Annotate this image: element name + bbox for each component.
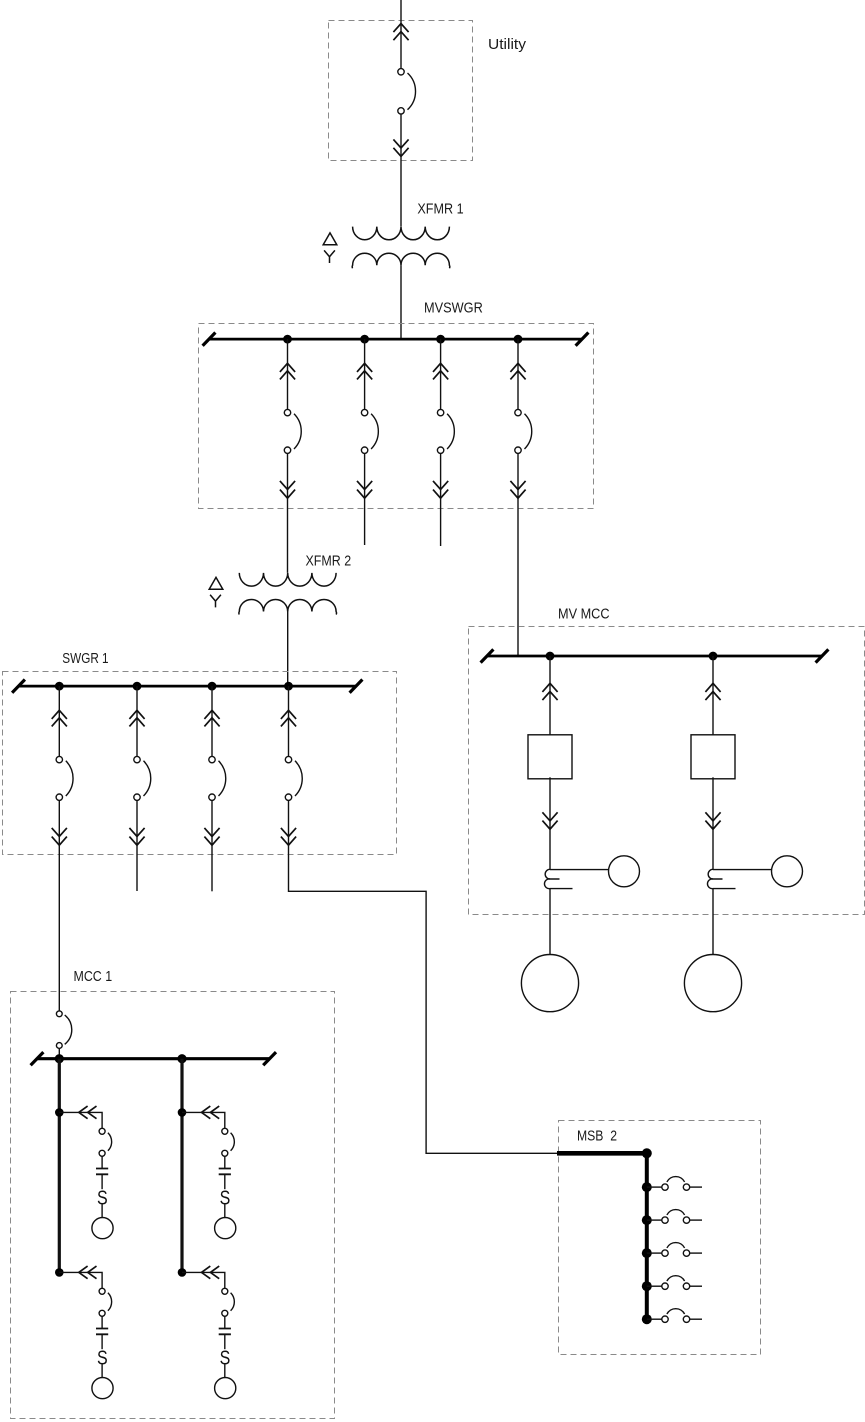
label Utility [488, 36, 527, 53]
wire MCC 1 col1 branch2 to motor [101, 1364, 103, 1377]
contact MCC 1 col2 branch2 [219, 1329, 231, 1335]
junction node MV MCC feeder 2 [709, 652, 718, 661]
XFMR 2 delta symbol [209, 577, 223, 589]
switch MSB 2 branch 2 left terminal [662, 1217, 668, 1223]
breaker SWGR 1 feeder 2 bottom terminal [134, 794, 140, 800]
wire MV MCC feeder 2 middle [712, 777, 714, 869]
breaker MVSWGR feeder 2 bottom terminal [361, 447, 367, 453]
flow arrow left MCC 1 col1 branch2 [79, 1266, 97, 1279]
breaker MCC 1 col2 branch2 top terminal [222, 1288, 228, 1294]
flow arrow down (utility out) [393, 139, 408, 156]
breaker SWGR 1 feeder 2 top terminal [134, 756, 140, 762]
junction node MCC 1 col1 branch1 [55, 1108, 64, 1117]
XFMR 2 wye symbol [210, 595, 221, 608]
wire MCC 1 col1 branch2 to overload [101, 1334, 103, 1349]
flow arrow down MVSWGR feeder 4 [510, 481, 525, 498]
wire MSB 2 branch 3 lead [647, 1252, 662, 1254]
flow arrow up MVSWGR feeder 1 [280, 363, 295, 379]
wire SWGR 1 feeder 4 to MSB 2 [289, 800, 559, 1153]
switch MSB 2 branch 4 left terminal [662, 1283, 668, 1289]
breaker SWGR 1 feeder 3 bottom terminal [209, 794, 215, 800]
MSB 2 enclosure (dashed) [559, 1121, 761, 1355]
wire MSB 2 branch 4 tail [690, 1285, 702, 1287]
wire XFMR 2 to SWGR 1 bus [287, 612, 289, 687]
breaker SWGR 1 feeder 1 top terminal [56, 756, 62, 762]
wire MV MCC feeder 1 middle [549, 777, 551, 869]
switch MSB 2 branch 3 right terminal [683, 1250, 689, 1256]
switch MSB 2 branch 1 left terminal [662, 1184, 668, 1190]
utility breaker arc [408, 73, 416, 110]
breaker MVSWGR feeder 4 arc [525, 414, 532, 449]
junction node MVSWGR feeder 3 [436, 335, 445, 344]
breaker MVSWGR feeder 3 top terminal [437, 409, 443, 415]
label XFMR 2 [306, 553, 352, 570]
busbar MVSWGR [203, 333, 589, 346]
breaker MVSWGR feeder 2 top terminal [361, 409, 367, 415]
XFMR 1 delta symbol [323, 233, 337, 245]
wire MCC 1 col2 branch1 horizontal [182, 1112, 225, 1128]
riser MCC 1 column 2 [180, 1059, 183, 1273]
XFMR 1 wye symbol [324, 250, 335, 263]
wire MSB 2 branch 2 lead [647, 1219, 662, 1221]
wire MCC 1 col2 branch1 to contact [224, 1156, 226, 1168]
breaker MCC 1 col2 branch1 top terminal [222, 1128, 228, 1134]
junction node MCC 1 col2 branch2 [178, 1268, 187, 1277]
MV MCC enclosure (dashed) [469, 627, 865, 915]
svg-text:MV MCC: MV MCC [558, 606, 610, 623]
wire SWGR 1 feeder 1 upper [58, 686, 60, 756]
breaker MCC 1 col1 branch2 bottom terminal [99, 1310, 105, 1316]
contact MCC 1 col1 branch1 [96, 1169, 108, 1175]
wire MVSWGR feeder 3 stub [440, 453, 442, 546]
breaker SWGR 1 feeder 3 arc [219, 761, 226, 796]
junction node MV MCC feeder 1 [546, 652, 555, 661]
utility breaker bottom terminal [398, 108, 404, 114]
switch MSB 2 branch 1 right terminal [683, 1184, 689, 1190]
wire MSB 2 branch 3 tail [690, 1252, 702, 1254]
breaker MVSWGR feeder 4 top terminal [515, 409, 521, 415]
wire MCC 1 col1 branch2 horizontal [59, 1272, 102, 1288]
wire SWGR 1 feeder 1 to MCC 1 [58, 800, 60, 1011]
flow arrow left MCC 1 col1 branch1 [79, 1106, 97, 1119]
motor M MV MCC feeder 1 [521, 955, 578, 1012]
wire utility breaker to XFMR 1 [400, 114, 402, 226]
flow arrow down MVSWGR feeder 2 [357, 481, 372, 498]
label SWGR 1 [62, 650, 108, 667]
wire MCC 1 col2 branch2 to contact [224, 1316, 226, 1328]
switch MSB 2 branch 5 arc [667, 1309, 685, 1314]
wire MCC 1 col2 branch1 to motor [224, 1204, 226, 1217]
busbar MCC 1 [31, 1052, 276, 1065]
flow arrow up SWGR 1 feeder 3 [204, 710, 219, 726]
wire MVSWGR feeder 2 upper [364, 339, 366, 409]
wire SWGR 1 feeder 3 upper [211, 686, 213, 756]
breaker MCC 1 col2 branch2 arc [231, 1293, 235, 1311]
breaker MCC 1 col2 branch1 arc [231, 1133, 235, 1151]
motor M MCC 1 col2 branch1 [215, 1218, 236, 1239]
contactor MV MCC feeder 2 [691, 735, 735, 779]
switch MSB 2 branch 3 left terminal [662, 1250, 668, 1256]
junction node SWGR 1 feeder 2 [133, 682, 142, 691]
flow arrow left MCC 1 col2 branch2 [202, 1266, 220, 1279]
SWGR 1 enclosure (dashed) [3, 672, 397, 855]
wire MVSWGR feeder 2 stub [364, 453, 366, 545]
utility breaker top terminal [398, 69, 404, 75]
flow arrow down SWGR 1 feeder 2 [129, 828, 144, 845]
breaker MVSWGR feeder 4 bottom terminal [515, 447, 521, 453]
svg-text:SWGR 1: SWGR 1 [62, 650, 108, 667]
wire MSB 2 branch 5 lead [647, 1318, 662, 1320]
breaker MCC 1 col1 branch1 arc [108, 1133, 112, 1151]
breaker SWGR 1 feeder 3 top terminal [209, 756, 215, 762]
svg-text:XFMR 2: XFMR 2 [306, 553, 352, 570]
wire SWGR 1 feeder 4 upper [288, 686, 290, 756]
busbar MSB 2 vertical [645, 1151, 649, 1319]
breaker MCC 1 col1 branch2 arc [108, 1293, 112, 1311]
wire MCC 1 col1 branch1 horizontal [59, 1112, 102, 1128]
junction node MVSWGR feeder 1 [283, 335, 292, 344]
flow arrow up MVSWGR feeder 3 [433, 363, 448, 379]
flow arrow up MVSWGR feeder 2 [357, 363, 372, 379]
contact MCC 1 col1 branch2 [96, 1329, 108, 1335]
junction node MSB 2 branch 5 [642, 1314, 652, 1324]
motor M MV MCC feeder 2 [684, 955, 741, 1012]
breaker SWGR 1 feeder 1 arc [66, 761, 73, 796]
wire MVSWGR feeder 1 to XFMR 2 [287, 453, 289, 572]
flow arrow down SWGR 1 feeder 1 [52, 828, 67, 845]
switch MSB 2 branch 1 arc [667, 1177, 685, 1182]
junction node MSB 2 branch 2 [642, 1215, 652, 1225]
junction node MSB 2 branch 4 [642, 1281, 652, 1291]
wire utility drop (top) [400, 0, 402, 69]
flow arrow up MV MCC feeder 2 [705, 683, 720, 700]
wire MSB 2 branch 5 tail [690, 1318, 702, 1320]
flow arrow down MVSWGR feeder 3 [433, 481, 448, 498]
riser MCC 1 column 1 [58, 1059, 61, 1273]
wire MCC 1 col2 branch2 to motor [224, 1364, 226, 1377]
junction node MCC 1 col2 branch1 [178, 1108, 187, 1117]
junction node MSB 2 branch 3 [642, 1248, 652, 1258]
flow arrow up SWGR 1 feeder 4 [281, 710, 296, 726]
wire MCC 1 col2 branch1 to overload [224, 1174, 226, 1189]
motor M MCC 1 col2 branch2 [215, 1378, 236, 1399]
wire SWGR 1 feeder 2 stub [136, 800, 138, 891]
wire MCC 1 col1 branch1 to motor [101, 1204, 103, 1217]
wire MVSWGR feeder 4 upper [517, 339, 519, 409]
breaker MVSWGR feeder 2 arc [371, 414, 378, 449]
svg-text:Utility: Utility [488, 36, 527, 53]
relay meter circle MV MCC feeder 2 [772, 856, 803, 887]
junction node MCC 1 col1 branch2 [55, 1268, 64, 1277]
wire MCC 1 col1 branch2 to contact [101, 1316, 103, 1328]
breaker SWGR 1 feeder 4 arc [295, 761, 302, 796]
label MCC 1 [74, 968, 113, 985]
overload element MCC 1 col2 branch2 [220, 1345, 231, 1368]
flow arrow up SWGR 1 feeder 2 [129, 710, 144, 726]
switch MSB 2 branch 4 right terminal [683, 1283, 689, 1289]
flow arrow up MVSWGR feeder 4 [510, 363, 525, 379]
flow arrow up MV MCC feeder 1 [542, 683, 557, 700]
overload element MCC 1 col2 branch1 [220, 1185, 231, 1208]
flow arrow up SWGR 1 feeder 1 [52, 710, 67, 726]
MCC 1 main breaker top terminal [56, 1011, 62, 1017]
flow arrow up (utility in) [393, 24, 408, 41]
wire MV MCC feeder 1 to motor [549, 889, 551, 955]
breaker MCC 1 col1 branch1 bottom terminal [99, 1150, 105, 1156]
breaker MCC 1 col1 branch1 top terminal [99, 1128, 105, 1134]
busbar MV MCC [481, 649, 829, 662]
flow arrow down SWGR 1 feeder 4 [281, 828, 296, 845]
flow arrow down SWGR 1 feeder 3 [204, 828, 219, 845]
wire MSB 2 branch 2 tail [690, 1219, 702, 1221]
junction node MSB 2 bus corner [642, 1148, 652, 1158]
wire MCC 1 col2 branch2 to overload [224, 1334, 226, 1349]
switch MSB 2 branch 5 left terminal [662, 1316, 668, 1322]
flow arrow left MCC 1 col2 branch1 [202, 1106, 220, 1119]
overload relay MV MCC feeder 2 [707, 869, 735, 888]
wire MV MCC feeder 2 upper [712, 656, 714, 735]
label MV MCC [558, 606, 610, 623]
switch MSB 2 branch 5 right terminal [683, 1316, 689, 1322]
wire MSB 2 branch 1 lead [647, 1186, 662, 1188]
MCC 1 enclosure (dashed) [11, 992, 335, 1419]
breaker SWGR 1 feeder 4 top terminal [285, 756, 291, 762]
junction node SWGR 1 feeder 3 [208, 682, 217, 691]
wire XFMR 1 to MVSWGR bus [400, 265, 402, 339]
wire MCC 1 main breaker to bus [58, 1048, 60, 1058]
wire MCC 1 col1 branch1 to contact [101, 1156, 103, 1168]
transformer XFMR 1 windings [352, 227, 450, 269]
wire SWGR 1 feeder 3 stub [211, 800, 213, 891]
flow arrow down MV MCC feeder 1 [542, 812, 557, 829]
contactor MV MCC feeder 1 [528, 735, 572, 779]
busbar SWGR 1 [12, 680, 362, 693]
wire MVSWGR feeder 4 to MV MCC bus [517, 453, 519, 656]
svg-text:XFMR 1: XFMR 1 [417, 201, 463, 218]
overload relay MV MCC feeder 1 [544, 869, 572, 888]
transformer XFMR 2 windings [239, 573, 337, 615]
breaker MVSWGR feeder 3 arc [447, 414, 454, 449]
svg-text:MCC 1: MCC 1 [74, 968, 113, 985]
junction node MVSWGR feeder 4 [514, 335, 523, 344]
label XFMR 1 [417, 201, 463, 218]
junction node SWGR 1 feeder 1 [55, 682, 64, 691]
breaker MVSWGR feeder 3 bottom terminal [437, 447, 443, 453]
breaker MCC 1 col2 branch2 bottom terminal [222, 1310, 228, 1316]
breaker MCC 1 col1 branch2 top terminal [99, 1288, 105, 1294]
breaker SWGR 1 feeder 4 bottom terminal [285, 794, 291, 800]
junction node MCC 1 bus column 1 [55, 1054, 64, 1063]
wire MV MCC feeder 1 relay tap [550, 869, 609, 871]
wire MCC 1 col2 branch2 horizontal [182, 1272, 225, 1288]
utility enclosure (dashed) [329, 21, 473, 161]
wire MSB 2 branch 4 lead [647, 1285, 662, 1287]
flow arrow down MV MCC feeder 2 [705, 812, 720, 829]
label MVSWGR [424, 300, 483, 317]
svg-text:MVSWGR: MVSWGR [424, 300, 483, 317]
junction node MVSWGR feeder 2 [360, 335, 369, 344]
overload element MCC 1 col1 branch1 [97, 1185, 108, 1208]
junction node MSB 2 branch 1 [642, 1182, 652, 1192]
motor M MCC 1 col1 branch1 [92, 1218, 113, 1239]
MVSWGR enclosure (dashed) [199, 324, 594, 509]
wire MCC 1 col1 branch1 to overload [101, 1174, 103, 1189]
switch MSB 2 branch 4 arc [667, 1276, 685, 1281]
busbar MSB 2 horizontal [557, 1151, 647, 1156]
svg-text:MSB 2: MSB 2 [577, 1128, 617, 1145]
junction node SWGR 1 feeder 4 [284, 682, 293, 691]
contact MCC 1 col2 branch1 [219, 1169, 231, 1175]
breaker MCC 1 col2 branch1 bottom terminal [222, 1150, 228, 1156]
wire SWGR 1 feeder 2 upper [136, 686, 138, 756]
breaker MVSWGR feeder 1 top terminal [284, 409, 290, 415]
flow arrow down MVSWGR feeder 1 [280, 481, 295, 498]
switch MSB 2 branch 2 right terminal [683, 1217, 689, 1223]
breaker MVSWGR feeder 1 arc [294, 414, 301, 449]
wire MSB 2 branch 1 tail [690, 1186, 702, 1188]
wire MVSWGR feeder 3 upper [440, 339, 442, 409]
breaker MVSWGR feeder 1 bottom terminal [284, 447, 290, 453]
motor M MCC 1 col1 branch2 [92, 1378, 113, 1399]
label MSB 2 [577, 1128, 617, 1145]
breaker SWGR 1 feeder 1 bottom terminal [56, 794, 62, 800]
wire MVSWGR feeder 1 upper [287, 339, 289, 409]
MCC 1 main breaker bottom terminal [56, 1043, 62, 1049]
switch MSB 2 branch 2 arc [667, 1210, 685, 1215]
relay meter circle MV MCC feeder 1 [609, 856, 640, 887]
MCC 1 main breaker arc [65, 1015, 72, 1044]
switch MSB 2 branch 3 arc [667, 1243, 685, 1248]
wire MV MCC feeder 2 to motor [712, 889, 714, 955]
junction node MCC 1 bus column 2 [177, 1054, 186, 1063]
wire MV MCC feeder 1 upper [549, 656, 551, 735]
breaker SWGR 1 feeder 2 arc [144, 761, 151, 796]
overload element MCC 1 col1 branch2 [97, 1345, 108, 1368]
wire MV MCC feeder 2 relay tap [713, 869, 772, 871]
